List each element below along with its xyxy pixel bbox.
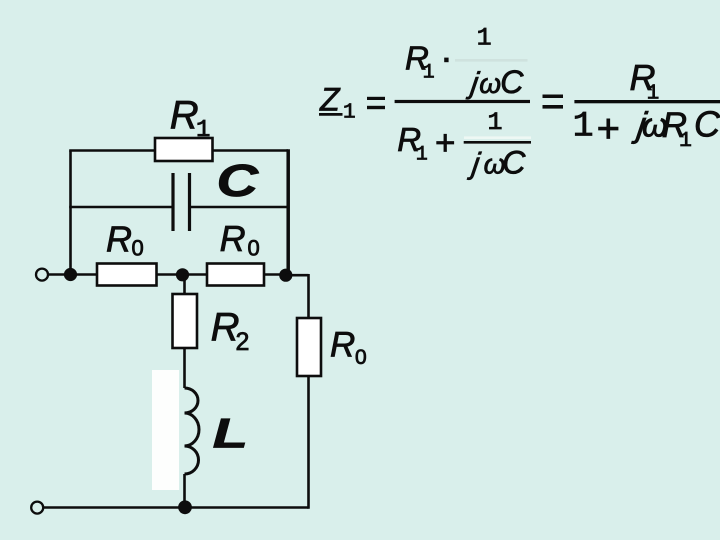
svg-text:R: R [106, 219, 132, 260]
svg-text:1: 1 [477, 24, 492, 53]
wire: top loop left vertical [69, 151, 72, 275]
svg-text:C: C [217, 155, 259, 205]
wire: box2 to right node [264, 273, 286, 276]
terminal bottom-left [31, 502, 43, 514]
node: junction dot middle [176, 268, 189, 281]
resistor R2 [173, 294, 198, 348]
svg-text:+: + [435, 124, 455, 163]
svg-text:Z: Z [319, 82, 341, 118]
svg-text:1: 1 [416, 143, 428, 166]
svg-text:0: 0 [355, 346, 367, 369]
fraction 2 main bar [574, 100, 720, 103]
wire: right node to right branch corner [286, 274, 309, 277]
wire: capacitor branch right [191, 206, 289, 209]
white patch behind inductor L [152, 370, 179, 490]
wire: inductor to bottom node [183, 474, 186, 508]
resistor R0 (vertical right) [297, 318, 321, 376]
inner fraction bar (white highlight + black) [464, 136, 531, 139]
equals sign 1 [367, 97, 385, 100]
svg-text:C: C [502, 145, 526, 181]
inner fraction bar (light) [455, 59, 528, 62]
capacitor C plate left [171, 173, 174, 231]
terminal top-left [36, 269, 48, 281]
svg-text:C: C [694, 104, 720, 145]
wire: top loop right vertical [286, 149, 290, 275]
svg-text:1: 1 [343, 102, 356, 125]
resistor R0 (left) [97, 264, 157, 286]
wire: middle node to R0 box2 [183, 273, 208, 276]
wire: R2 to inductor [183, 348, 186, 388]
node: junction dot left [64, 268, 77, 281]
wire: box1 to middle node [157, 273, 184, 276]
inductor L (3 arcs) [185, 388, 200, 474]
svg-text:+: + [597, 107, 620, 151]
equals sign 2 [543, 95, 564, 99]
fraction 1 main bar [395, 100, 530, 103]
svg-text:1: 1 [679, 129, 692, 153]
node: junction dot right [279, 269, 292, 282]
capacitor C plate right [188, 173, 191, 231]
wire: capacitor branch left [69, 206, 171, 209]
wire: right branch vertical upper [307, 274, 310, 318]
wire: top horizontal right segment [211, 149, 288, 152]
svg-text:R: R [220, 218, 246, 259]
node: junction dot bottom [178, 500, 192, 514]
svg-text:1: 1 [647, 82, 660, 105]
svg-text:R: R [170, 93, 199, 137]
svg-text:ω: ω [479, 68, 501, 99]
wire: node to R0 box1 [71, 273, 98, 276]
svg-text:1: 1 [423, 61, 435, 84]
resistor R0 (right) [207, 264, 264, 286]
wire: top horizontal left segment [69, 149, 156, 152]
wire: bottom horizontal [43, 506, 308, 509]
svg-text:0: 0 [132, 236, 144, 261]
svg-text:C: C [500, 64, 524, 100]
svg-text:L: L [213, 409, 248, 456]
svg-text:0: 0 [248, 236, 260, 261]
svg-text:R: R [330, 326, 355, 365]
svg-text:2: 2 [236, 328, 250, 356]
svg-text:1: 1 [573, 107, 594, 147]
wire: right branch vertical lower [307, 376, 310, 509]
wire: terminal to node [48, 273, 70, 276]
svg-text:1: 1 [488, 108, 503, 137]
wire: middle node down to R2 [183, 275, 186, 295]
resistor R1 [155, 138, 213, 161]
svg-text:1: 1 [196, 117, 210, 144]
